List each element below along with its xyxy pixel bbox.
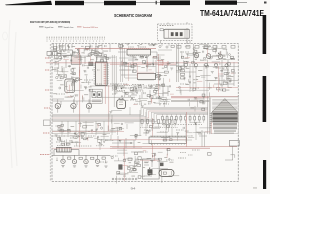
label dashes above U2 bbox=[128, 46, 146, 48]
bottom right white box bbox=[149, 136, 187, 145]
red bottom pair bbox=[110, 147, 237, 149]
wire across under U1 bbox=[90, 86, 135, 97]
svg-text:Terminal RF line: Terminal RF line bbox=[83, 26, 99, 29]
legend: switch line bbox=[58, 26, 74, 29]
chain resistors bbox=[68, 157, 71, 159]
extra gray wires bbox=[52, 90, 209, 133]
right area small parts bbox=[214, 68, 236, 84]
right section horizontal wires bbox=[176, 67, 238, 81]
label rows mid band bbox=[112, 86, 152, 92]
right mid vertical wires bbox=[190, 64, 207, 100]
transistor Q2 bbox=[71, 99, 76, 112]
svg-text:TM-641A/741A/741E: TM-641A/741A/741E bbox=[200, 8, 264, 18]
crystal filter block bbox=[117, 99, 126, 109]
transistor in PLL box bbox=[148, 170, 152, 175]
parts scatter left-mid bbox=[54, 50, 103, 72]
main IC U1 (vertical) bbox=[94, 57, 109, 85]
transistor Q4 bbox=[194, 53, 199, 58]
wires around U2/U3 bbox=[118, 52, 157, 75]
below bus parts bbox=[55, 122, 173, 146]
shielded coil block bbox=[65, 79, 75, 93]
left column small parts bbox=[47, 52, 52, 56]
ground symbols chain bbox=[61, 166, 107, 168]
red wire near PLL bbox=[140, 153, 160, 161]
left mid parts bbox=[53, 62, 92, 102]
wire bundle right of U1 bbox=[112, 55, 116, 107]
parts below border mid bbox=[158, 44, 174, 50]
chain transistor Q7 bbox=[61, 155, 65, 163]
unit dashed border bbox=[52, 44, 238, 182]
audio IC U2 (horizontal) bbox=[127, 48, 151, 56]
pre-connector wires bbox=[188, 94, 205, 112]
harness outer box bbox=[211, 97, 238, 134]
long vertical harness wire bbox=[208, 92, 210, 134]
unit border inner left line bbox=[49, 44, 51, 181]
bottom connector circles bbox=[112, 178, 137, 180]
red node cluster bbox=[157, 60, 168, 66]
right mid parts bbox=[177, 28, 234, 89]
red vertical main bbox=[79, 48, 81, 147]
label band bbox=[114, 84, 164, 97]
above U2 labels bbox=[119, 43, 158, 49]
left margin red labels bbox=[40, 58, 50, 155]
red right extension bbox=[176, 62, 238, 64]
red verticals lower mid bbox=[124, 118, 152, 181]
lower mid cluster bbox=[112, 136, 143, 156]
red vertical right mid bbox=[185, 112, 187, 147]
transistor Q5 bbox=[206, 54, 211, 59]
legend: terminal RF line (red) bbox=[77, 26, 99, 29]
red vertical mid bbox=[128, 63, 137, 81]
right col extra bbox=[211, 48, 235, 91]
red vertical x158 bbox=[157, 54, 159, 96]
right mid parts bbox=[176, 65, 234, 95]
mixer box bbox=[71, 56, 81, 64]
transistor row below red line bbox=[184, 63, 228, 69]
capacitors below chain bbox=[56, 158, 107, 163]
lower mid parts bbox=[111, 148, 179, 183]
label rows upper-mid bbox=[110, 84, 162, 88]
chain transistor Q10 bbox=[95, 155, 99, 163]
connector pin labels above top border bbox=[47, 36, 106, 38]
chain transistor Q8 bbox=[72, 155, 76, 163]
left small box on border bbox=[44, 120, 51, 126]
parts in PLL box bbox=[144, 161, 152, 176]
pre-harness parts bbox=[151, 85, 174, 108]
page scan artifacts top bbox=[5, 1, 267, 6]
center parts bbox=[113, 84, 170, 108]
red RF line top bbox=[75, 47, 156, 49]
svg-text:Switch line: Switch line bbox=[64, 26, 75, 29]
mid-right parts bbox=[155, 55, 179, 86]
small part right lower bbox=[208, 153, 212, 156]
main wiring bus (staircase) bbox=[52, 107, 208, 121]
bottom right wires bbox=[225, 146, 235, 160]
red vertical near connector bbox=[205, 122, 211, 134]
VCO stadium bbox=[159, 170, 174, 177]
misc horizontal wires lower bbox=[52, 131, 208, 140]
wire step top-left bbox=[49, 49, 103, 60]
wires sub-box to border bbox=[161, 22, 191, 44]
transistor Q6 bbox=[218, 54, 223, 59]
chain wire bbox=[52, 150, 110, 156]
pin rows below connector bbox=[214, 130, 236, 133]
red line lower extension bbox=[52, 147, 110, 149]
labels above chain bbox=[57, 145, 105, 147]
mid parts bbox=[122, 56, 157, 72]
labels under resistor row bbox=[162, 124, 202, 126]
sub-unit dashed box (display/control) bbox=[158, 24, 193, 41]
PLL sub dashed box bbox=[143, 159, 160, 179]
dark transistor lower mid bbox=[119, 165, 123, 170]
top right parts row bbox=[177, 46, 235, 49]
left mid extra bbox=[56, 65, 93, 103]
wire mid horizontals bbox=[119, 58, 158, 78]
scattered tiny labels bbox=[56, 47, 222, 162]
svg-text:6AM TX-RX UNIT (X57-3680-00) (: 6AM TX-RX UNIT (X57-3680-00) (CP VERSION… bbox=[30, 20, 70, 24]
red pair to connector bbox=[171, 97, 238, 98]
dark part above VCO bbox=[160, 163, 164, 167]
right lower parts bbox=[176, 122, 210, 141]
small ic U4 bbox=[89, 62, 93, 66]
svg-text:Signal line: Signal line bbox=[45, 27, 55, 29]
red vertical through U1 bbox=[105, 64, 109, 131]
mid column parts bbox=[108, 111, 122, 132]
lower left RF chain: shielded coil (dark) bbox=[57, 147, 72, 152]
top-left extra bbox=[67, 45, 108, 58]
wires from top border dropping in bbox=[54, 44, 121, 52]
misc vertical wires bbox=[62, 107, 196, 142]
left top corner parts bbox=[53, 46, 69, 66]
filter block NF bbox=[61, 50, 72, 55]
svg-text:SCHEMATIC DIAGRAM: SCHEMATIC DIAGRAM bbox=[114, 13, 152, 18]
transistor Q1 bbox=[55, 99, 60, 112]
chain transistor Q9 bbox=[84, 155, 88, 163]
labels right lower bbox=[178, 153, 193, 159]
IC inside sub-box bbox=[164, 28, 189, 38]
IF filter cluster box bbox=[90, 89, 102, 103]
resistor ladder right bbox=[181, 66, 185, 79]
resistor row mid bbox=[140, 120, 178, 128]
legend: signal line bbox=[39, 27, 54, 29]
wires between transistors bbox=[52, 99, 102, 105]
connector left ticks bbox=[210, 114, 212, 128]
label row above sub-box bbox=[160, 25, 174, 27]
faint page curl shadows left margin bbox=[3, 20, 17, 168]
harness fan triangle bbox=[212, 99, 238, 113]
vertical pair to red bus bbox=[199, 130, 207, 147]
extra red distribution lines bbox=[176, 87, 238, 89]
small mark right bottom bbox=[253, 187, 257, 190]
connector pin block bbox=[212, 112, 238, 129]
bottom right small box bbox=[229, 140, 239, 146]
transistor Q3 bbox=[86, 99, 91, 112]
red horizontal mid pair bbox=[46, 63, 176, 64]
wire bundle mid bbox=[121, 44, 125, 82]
resistor row under bus bbox=[162, 114, 205, 123]
small parts lower mid bbox=[128, 158, 132, 161]
IC U3 (horizontal lower) bbox=[137, 72, 155, 81]
upper mid small parts bbox=[131, 86, 168, 98]
black pair right bbox=[171, 100, 210, 101]
small part left in sub-box bbox=[160, 29, 163, 31]
right top parts bbox=[177, 44, 235, 67]
page scan artifacts right edge bbox=[263, 15, 267, 189]
left lower labels bbox=[57, 135, 113, 150]
top-left parts bbox=[54, 45, 116, 62]
